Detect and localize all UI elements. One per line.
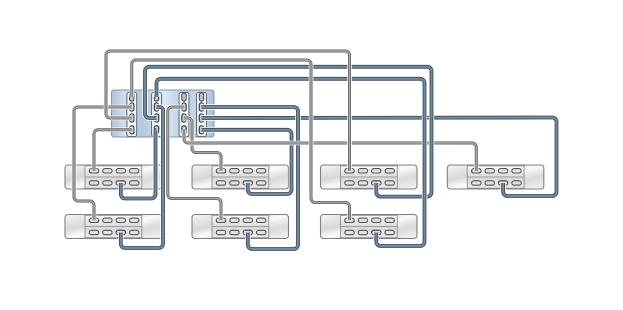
disk shelf B1 [65,215,162,239]
cable strip3-p3 to A2 top [184,118,221,171]
cable strip1-p1 to B3 top [132,60,350,220]
cable strip4-p2 to B2 bottom [202,107,299,249]
cable strip3-p4 to A4 top [184,130,476,171]
HBA slot 1 [127,92,137,136]
connected shelf port rings [89,171,98,173]
port strip1-p4 [130,126,134,134]
port strip4-p1 [199,93,203,101]
port strip4-p2 [199,103,203,111]
port strip3-p2 [182,103,186,111]
HBA slot 4 [197,92,207,136]
port strip1-p1 [130,93,134,101]
port strip2-p4 [154,126,158,134]
cable strip1-p3 to A3 top [106,51,350,171]
disk shelf A2 [192,165,289,189]
port strip2-p2 [154,103,158,111]
port strip1-p2 [130,103,134,111]
port strip3-p1 [182,93,186,101]
cable strip3-p2 to B2 top [168,107,221,220]
port strip4-p3 [199,114,203,122]
port strip1-p3 [130,114,134,122]
disk shelf B3 [321,215,418,239]
controller [112,90,215,137]
cable strip1-p2 to B1 top [74,107,132,220]
cable strip2-p3 to A3 bottom [145,67,432,197]
port strip3-p3 [182,114,186,122]
cable strip4-p3 to A4 bottom [202,118,557,197]
cable strip1-p4 to A1 top [94,130,132,171]
disk shelf A1 [65,165,162,189]
port strip2-p1 [154,93,158,101]
HBA slot 3 [179,92,189,136]
cable strip2-p1 to B3 bottom [157,79,425,246]
disk shelf A3 [321,165,418,189]
port strip3-p4 [182,126,186,134]
port strip4-p4 [199,126,203,134]
cable strip2-p2 to B1 bottom [121,107,163,248]
disk shelf A4 [447,165,544,189]
disk shelf B2 [192,215,289,239]
port strip2-p3 [154,114,158,122]
connected controller port rings [130,97,134,101]
HBA slot 2 [152,92,162,136]
cable strip4-p4 to A2 bottom [202,130,292,194]
cable strip2-p4 to A1 bottom [121,130,157,199]
